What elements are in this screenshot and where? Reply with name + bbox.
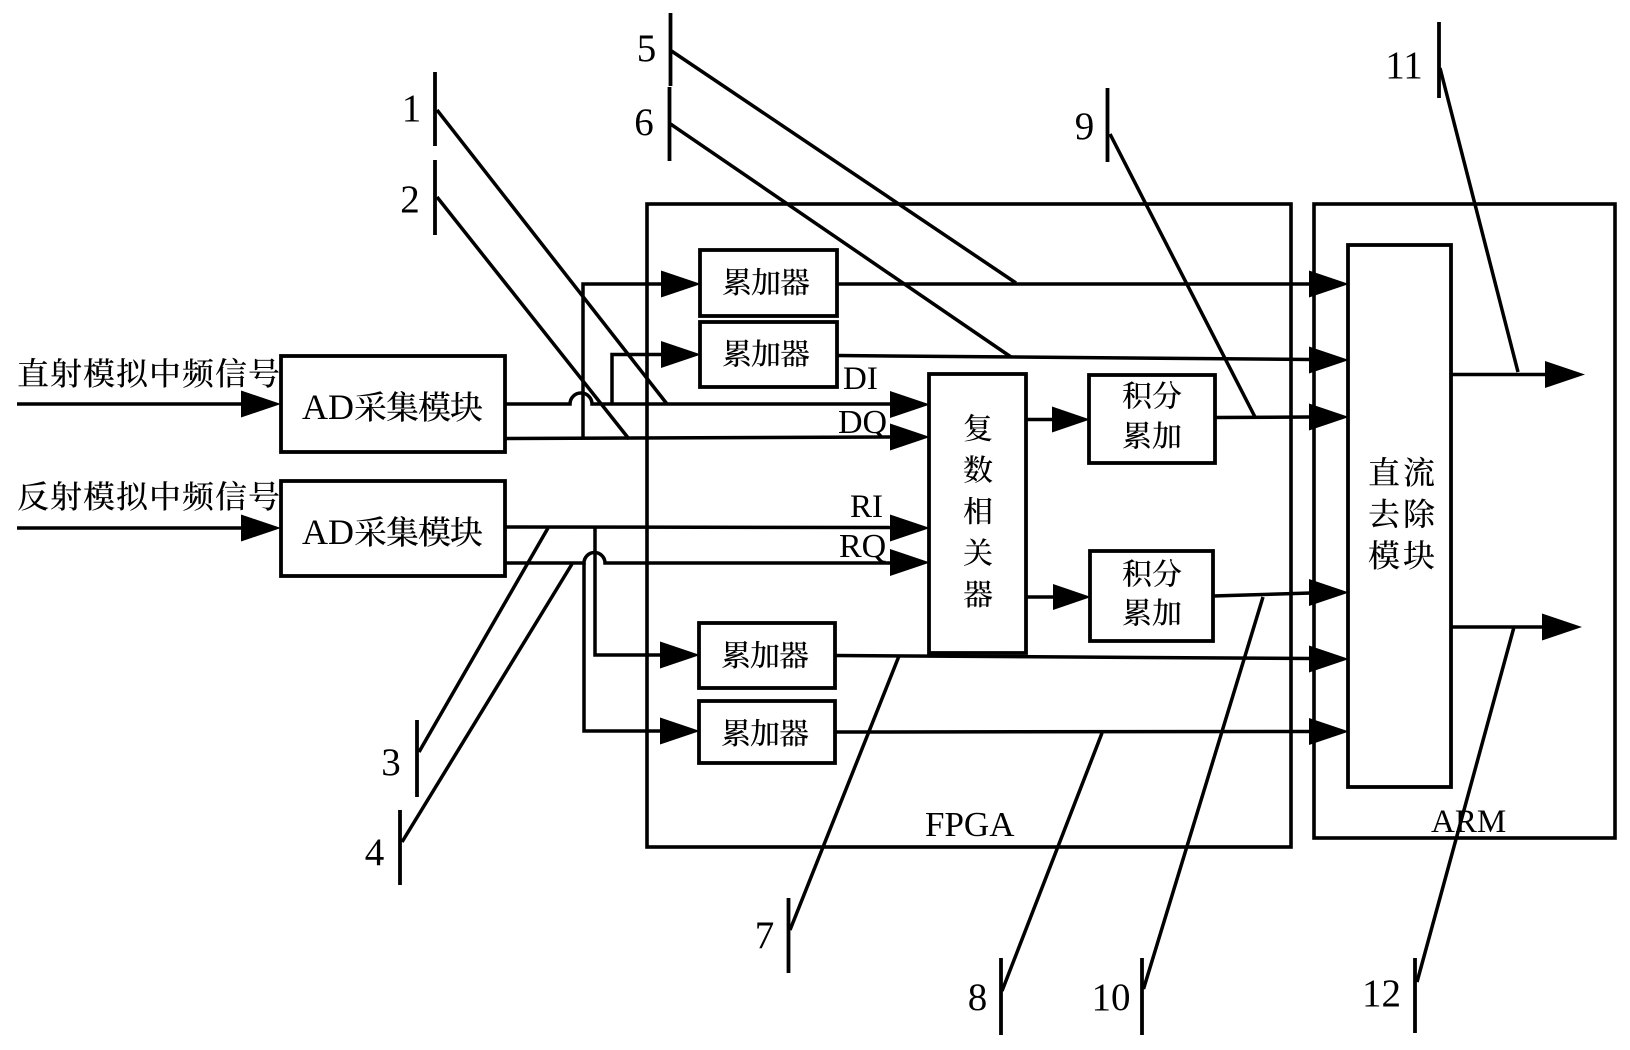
svg-text:11: 11 (1385, 44, 1423, 87)
svg-text:5: 5 (637, 27, 657, 70)
callout 11: tick mark (1437, 22, 1441, 98)
svg-text:4: 4 (365, 831, 385, 874)
wire: reflected IF input arrow (17, 515, 281, 542)
svg-text:AD: AD (302, 512, 354, 552)
callout 1: digit (402, 87, 422, 130)
wire RI: AD2 to correlator (505, 515, 930, 542)
callout 7: digit (755, 914, 775, 957)
label DQ (838, 404, 887, 441)
input label 直射模拟中频信号 (18, 358, 278, 388)
callout 11: digit (1385, 44, 1423, 87)
wire: 累加器1 output to DC removal (837, 271, 1349, 298)
callout 6: tick mark (668, 87, 672, 161)
svg-text:AD: AD (302, 387, 354, 427)
callout 8: leader line (1002, 733, 1102, 991)
block 积分累加 1 (1089, 375, 1215, 463)
callout 5: digit (637, 27, 657, 70)
svg-text:12: 12 (1362, 972, 1401, 1015)
svg-text:1: 1 (402, 87, 422, 130)
wire DQ: AD1 to correlator (505, 424, 930, 451)
wire DI: AD1 to correlator (hop over x583) (505, 391, 930, 418)
callout 11: leader line (1440, 68, 1518, 372)
callout 6: digit (634, 101, 654, 144)
label FPGA (925, 805, 1015, 844)
callout 7: leader line (790, 656, 899, 930)
svg-text:7: 7 (755, 914, 775, 957)
svg-text:2: 2 (400, 178, 420, 221)
callout 12: tick mark (1413, 958, 1417, 1033)
svg-text:8: 8 (968, 976, 988, 1019)
block U2 AD采集模块 (reflected) (281, 481, 505, 576)
svg-text:DQ: DQ (838, 404, 887, 441)
block 累加器 1 (700, 250, 837, 316)
wire: 积分累加1 output to DC removal (1215, 404, 1349, 431)
callout 1: leader line (437, 110, 667, 404)
callout 5: leader line (672, 51, 1017, 283)
callout 8: tick mark (999, 958, 1003, 1035)
callout 4: tick mark (398, 810, 402, 885)
input label 反射模拟中频信号 (18, 481, 279, 511)
wire RQ: AD2 to correlator (hop over x595) (505, 549, 930, 576)
label RI (850, 489, 883, 525)
wire: RQ tap to 累加器4 (584, 563, 700, 745)
FPGA boundary box (647, 204, 1291, 847)
svg-text:10: 10 (1092, 976, 1131, 1019)
wire: 累加器2 output to DC removal (837, 347, 1349, 374)
svg-text:RQ: RQ (839, 528, 886, 565)
block 直流去除模块 (DC removal) (1348, 245, 1451, 787)
callout 1: tick mark (433, 72, 437, 146)
block 累加器 2 (700, 322, 837, 387)
callout 7: tick mark (787, 898, 791, 973)
ARM boundary box (1314, 204, 1615, 838)
wire: RI tap to 累加器3 (595, 527, 700, 669)
svg-text:9: 9 (1075, 105, 1095, 148)
wire: DC removal output 2 (ARM) (1451, 614, 1582, 641)
callout 2: digit (400, 178, 420, 221)
wire: correlator to 积分累加1 (1026, 407, 1090, 433)
callout 5: tick mark (669, 13, 673, 86)
svg-text:3: 3 (381, 741, 401, 784)
wire: direct IF input arrow (17, 391, 281, 418)
callout 6: leader line (671, 124, 1012, 357)
block U1 AD采集模块 (direct) (281, 356, 505, 452)
wire: correlator to 积分累加2 (1026, 584, 1091, 610)
wire: DI tap to 累加器2 (612, 341, 701, 404)
callout 3: leader line (419, 528, 548, 752)
label DI (843, 361, 878, 397)
svg-text:6: 6 (634, 101, 654, 144)
block 积分累加 2 (1090, 551, 1213, 641)
callout 10: leader line (1144, 597, 1264, 989)
callout 9: digit (1075, 105, 1095, 148)
svg-text:FPGA: FPGA (925, 805, 1015, 844)
callout 10: digit (1092, 976, 1131, 1019)
svg-text:DI: DI (843, 361, 878, 397)
callout 9: leader line (1110, 134, 1255, 417)
block 累加器 4 (699, 701, 835, 763)
callout 12: leader line (1417, 627, 1514, 982)
wire: 累加器3 output to DC removal (835, 646, 1349, 673)
callout 3: digit (381, 741, 401, 784)
callout 2: tick mark (433, 160, 437, 235)
wire: DC removal output 1 (ARM) (1451, 361, 1585, 388)
callout 8: digit (968, 976, 988, 1019)
callout 12: digit (1362, 972, 1401, 1015)
wire: 累加器4 output to DC removal (835, 718, 1349, 745)
callout 9: tick mark (1106, 88, 1110, 162)
label RQ (839, 528, 886, 565)
callout 2: leader line (437, 197, 629, 439)
wire: 积分累加2 output to DC removal (1213, 579, 1349, 606)
callout 3: tick mark (415, 720, 419, 797)
callout 10: tick mark (1140, 958, 1144, 1035)
callout 4: digit (365, 831, 385, 874)
svg-text:RI: RI (850, 489, 883, 525)
block 累加器 3 (699, 623, 835, 688)
callout 4: leader line (402, 564, 572, 842)
block 复数相关器 (complex correlator) (929, 374, 1026, 653)
wire: DQ tap to 累加器1 (583, 271, 701, 440)
label ARM (1431, 804, 1506, 840)
svg-text:ARM: ARM (1431, 804, 1506, 840)
